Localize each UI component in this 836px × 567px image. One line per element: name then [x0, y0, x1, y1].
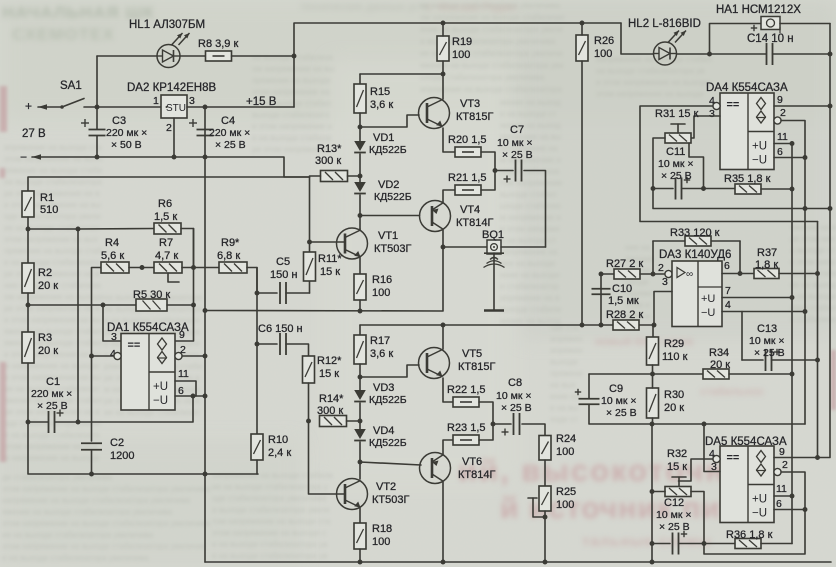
junction pin6 node: [191, 394, 196, 399]
comparator DA5 K554CA3A: [720, 446, 774, 523]
junction VT4 collector / BQ1 row: [441, 245, 446, 250]
junction VT5 collector node: [441, 323, 446, 328]
junction R29 on R34 row: [650, 372, 655, 377]
wire: DA4 pin6: [774, 157, 805, 159]
svg-text:VT2: VT2: [376, 481, 396, 493]
wire: bottom bus: [205, 561, 831, 563]
svg-text:× 25 В: × 25 В: [37, 400, 68, 412]
wire: DA1 pin11: [175, 381, 196, 396]
svg-text:напряжение на: напряжение на: [500, 248, 558, 257]
resistor R36: [735, 539, 761, 549]
svg-text:100: 100: [556, 446, 574, 458]
resistor R31 (trimmer): [665, 133, 691, 143]
svg-text:R2: R2: [38, 267, 52, 279]
svg-text:тальные схемы: тальные схемы: [582, 533, 712, 550]
wire: R14 right stub: [347, 420, 361, 422]
junction C1 tap: [26, 420, 31, 425]
capacitor C8 plates: [514, 413, 520, 435]
wire: R18 bottom to bus: [359, 549, 361, 562]
svg-text:1,5 мк: 1,5 мк: [608, 295, 639, 307]
junction output on x=817: [815, 271, 820, 276]
svg-text:C7: C7: [510, 124, 524, 136]
wire: C11 row left: [653, 188, 673, 190]
wire: VT6 base wire: [360, 462, 421, 465]
wire: x=651 vertical: [651, 424, 653, 562]
wire: y311 row: [205, 247, 443, 311]
junction pin6 DA5: [803, 507, 808, 512]
wire: C8 row: [493, 423, 511, 425]
wire: R33 row: [653, 240, 740, 242]
junction C5 row left: [255, 291, 260, 296]
wire: plus input rail y=107: [38, 106, 60, 108]
switch SA1 contact: [60, 105, 64, 109]
wire: BQ1 row right: [501, 246, 546, 248]
junction pin4 node: [89, 354, 94, 359]
wire: DA3 pin4: [722, 311, 805, 313]
svg-text:е на выходе стабилизатора увел: е на выходе стабилизатора увеличива: [2, 554, 149, 563]
resistor R15: [354, 84, 366, 113]
wire: HL1 to R8: [180, 55, 206, 57]
junction pin4 on x=805: [803, 309, 808, 314]
svg-text:м напряжение на выходе: м напряжение на выходе: [4, 454, 100, 463]
wire: DA5 pin9: [774, 209, 830, 458]
svg-text:R21 1,5: R21 1,5: [448, 172, 487, 184]
svg-text:КТ503Г: КТ503Г: [372, 494, 409, 506]
wire: x=193.5 vertical to DA1 pin9: [176, 229, 194, 342]
svg-text:этом напряжение на выходе стаб: этом напряжение на выходе стабилизатора …: [2, 519, 211, 528]
wire: bus corner to HL2: [621, 23, 653, 54]
wire: R33 feedback row: [652, 241, 654, 274]
wire: C12 row left: [652, 543, 670, 545]
junction R27 left node: [599, 272, 604, 277]
svg-text:е на выходе ст: е на выходе ст: [500, 110, 556, 119]
svg-text:этом напряжение на выходе: этом напряжение на выходе: [596, 90, 704, 99]
wire: DA3 pin7 supply: [722, 297, 792, 299]
wire: C6 right corner down to R12: [286, 344, 309, 356]
svg-text:КТ814Г: КТ814Г: [456, 217, 493, 229]
plus mark HA1: [751, 25, 757, 31]
trimmer arm R31 stem: [677, 124, 679, 133]
wire: R13 right stub: [348, 175, 361, 177]
svg-text:150 н: 150 н: [270, 269, 297, 281]
svg-text:+U: +U: [752, 141, 767, 153]
resistor R35: [735, 184, 761, 194]
wire: R5 row left: [28, 304, 136, 306]
svg-text:и этом напряжение на вы: и этом напряжение на вы: [4, 316, 101, 325]
wire: right edge riser x=830: [829, 24, 831, 209]
wire: C7 right corner down to BQ1 row: [524, 171, 546, 248]
svg-text:R7: R7: [159, 237, 173, 249]
svg-text:этом напряжение на вых: этом напряжение на вых: [4, 235, 98, 244]
svg-text:C12: C12: [664, 497, 684, 509]
wire: R9 right corner down to C5 row: [247, 268, 257, 294]
svg-text:е стабилизатор: е стабилизатор: [500, 282, 559, 291]
junction C3 top: [95, 105, 100, 110]
resistor R9*: [219, 262, 247, 273]
wire: R32 left: [652, 491, 665, 493]
svg-text:× 25 В: × 25 В: [606, 407, 637, 419]
capacitor C7 plates: [516, 160, 522, 182]
wire: R23 left + VT6 emitter drop: [443, 440, 453, 454]
svg-text:апряжение на выходе ста: апряжение на выходе ста: [4, 143, 102, 152]
transistor VT5 KT815G: [419, 348, 450, 379]
pin 2 circle DA3: [665, 270, 672, 277]
junction pin3/R29 node: [652, 323, 657, 328]
wire: C4 top: [204, 107, 206, 129]
svg-text:ние на: ние на: [625, 243, 650, 252]
wire: VD4 to VT2 collector: [359, 442, 361, 479]
svg-text:C13: C13: [757, 323, 777, 335]
resistor R12*: [303, 356, 315, 383]
svg-text:R8 3,9 к: R8 3,9 к: [198, 38, 238, 50]
resistor R4: [101, 262, 129, 273]
wire: DA1 pin6: [175, 395, 205, 397]
pin 4 circle DA4: [713, 102, 720, 109]
wire: R5 right to x=193.5: [167, 304, 194, 306]
trimmer arm R25 link: [533, 498, 545, 517]
svg-text:е на вы: е на вы: [550, 404, 579, 413]
capacitor C5 plates: [280, 282, 286, 304]
svg-text:апряжение на выходе стабилизат: апряжение на выходе стабилизатора: [420, 85, 562, 94]
wire: SA1 to DA2 pin1: [84, 106, 161, 108]
svg-text:С6 150 н: С6 150 н: [258, 323, 303, 335]
LED HL2: [654, 31, 687, 66]
junction minus rail crossing bus: [203, 472, 208, 477]
svg-text:6,8 к: 6,8 к: [217, 250, 240, 262]
junction R34 on supply riser: [790, 372, 795, 377]
svg-text:R6: R6: [158, 198, 172, 210]
svg-text:R11*: R11*: [318, 253, 342, 265]
junction DA2 pin2 on minus rail: [172, 155, 177, 160]
junction R31 wiper return: [701, 186, 706, 191]
switch SA1 lever: [62, 99, 84, 108]
svg-text:и этом напряжение н: и этом напряжение н: [252, 122, 332, 131]
junction R25 wiper: [543, 515, 548, 520]
wire: DA5 pin4 to R32 wiper: [679, 459, 714, 481]
wire: R1 to R2: [27, 217, 29, 263]
junction pin11 DA5 on supply riser: [790, 494, 795, 499]
junction VT6 collector on bus: [441, 560, 446, 565]
wire: R24 to R25: [544, 460, 546, 486]
trimmer arm R31: [671, 123, 685, 125]
svg-text:R17: R17: [370, 335, 390, 347]
wire: DA1 pin4 to integrator node: [92, 355, 115, 357]
svg-text:+: +: [25, 99, 32, 113]
junction R7/R6/R5/R9 node: [191, 265, 196, 270]
trimmer arm R32 stem: [678, 477, 680, 487]
wire: R21 left + VT4 emitter drop: [443, 190, 455, 202]
wire: R4 to R7: [129, 267, 154, 269]
wire: DA2 pin2 down: [173, 118, 175, 157]
junction R35 on supply riser: [790, 187, 795, 192]
wire: VT5 collector up: [442, 325, 444, 349]
junction C7 row left: [493, 168, 498, 173]
svg-text:е на выходе стабилизатора ув: е на выходе стабилизатора ув: [212, 540, 327, 549]
svg-text:10 мк ×: 10 мк ×: [601, 395, 636, 407]
wire: R13 left riser: [309, 177, 311, 293]
svg-text:C10: C10: [612, 283, 632, 295]
wire: C12 row right: [679, 543, 736, 545]
svg-text:на вых: на вых: [550, 381, 576, 390]
svg-text:20 к: 20 к: [664, 402, 684, 414]
svg-text:C11: C11: [666, 146, 685, 158]
junction y311 row on rail: [203, 308, 208, 313]
svg-text:ие на выходе стабилизат: ие на выходе стабилизат: [4, 224, 100, 233]
svg-text:300 к: 300 к: [315, 155, 341, 167]
svg-text:100: 100: [452, 49, 470, 61]
wire: R21 right corner up: [481, 171, 495, 191]
svg-text:е на выходе: е на выходе: [790, 292, 836, 301]
junction C8 row left: [491, 422, 496, 427]
svg-text:1,8 к: 1,8 к: [755, 259, 778, 271]
svg-text:КД522Б: КД522Б: [369, 437, 407, 449]
wire: C13 right: [772, 359, 818, 361]
svg-text:+15 В: +15 В: [246, 96, 277, 108]
svg-text:20 к: 20 к: [710, 359, 730, 371]
svg-text:C3: C3: [112, 115, 126, 127]
pin 4 circle DA5: [713, 455, 720, 462]
wire: R4 left corner: [92, 268, 102, 357]
junction VD2-VT1 node: [358, 213, 363, 218]
resistor R1: [22, 191, 34, 217]
svg-text:2: 2: [782, 459, 788, 471]
pin 2 circle DA4: [774, 117, 781, 124]
junction R1/R2 branch: [26, 227, 31, 232]
junction pin3 DA5 tap: [702, 422, 707, 427]
junction x651 on bus: [650, 560, 655, 565]
wire: x=817 vertical: [817, 222, 819, 458]
svg-text:КТ815Г: КТ815Г: [456, 111, 493, 123]
bleed-through headers: [2, 0, 517, 44]
wire: VT4 base wire: [360, 215, 420, 217]
svg-text:100: 100: [594, 48, 612, 60]
wire: R17 top corner: [359, 325, 361, 335]
svg-text:3,6 к: 3,6 к: [370, 99, 393, 111]
wire: R13 left stub: [310, 175, 321, 177]
svg-text:VT3: VT3: [460, 98, 480, 110]
svg-text:напряжение на выходе стабилиза: напряжение на выходе стабилизатора увели…: [2, 496, 191, 505]
resistor R25 (trimmer): [539, 486, 551, 511]
arrowhead minus input: [32, 154, 41, 160]
wire: VT3 base wire: [360, 115, 419, 127]
svg-text:R18: R18: [372, 523, 392, 535]
svg-text:2: 2: [658, 262, 664, 274]
svg-text:е на выходе стабилизатора ув: е на выходе стабилизатора ув: [212, 552, 327, 561]
svg-text:R34: R34: [709, 347, 729, 359]
junction C11 row left: [651, 186, 656, 191]
wire: DA4 pin2 down x=805: [781, 121, 805, 425]
wire: R33 right down: [739, 241, 741, 274]
wire: pin4 to C13: [741, 312, 743, 361]
wire: C11 row right: [682, 188, 737, 190]
svg-text:C14 10 н: C14 10 н: [747, 33, 794, 45]
junction HL1 row joins riser: [292, 54, 297, 59]
junction C4 bottom rail crossing: [203, 155, 208, 160]
junction R2/R3 branch: [26, 303, 31, 308]
svg-text:R13*: R13*: [317, 143, 342, 155]
svg-text:110 к: 110 к: [662, 351, 688, 363]
svg-text:VD2: VD2: [378, 179, 399, 191]
resistor R23: [453, 435, 479, 445]
svg-text:100: 100: [556, 499, 574, 511]
wire: C3 bottom: [96, 136, 98, 157]
svg-text:этом напряжение на выходе стаб: этом напряжение на выходе стабилизатора …: [2, 485, 211, 494]
svg-text:R22 1,5: R22 1,5: [447, 384, 486, 396]
diode VD1 KD522B: [354, 141, 366, 153]
wire: VT6 collector down to bus: [442, 482, 444, 562]
arrowhead plus input: [38, 104, 47, 110]
wire: C2 to bus: [91, 450, 93, 474]
svg-text:ом напряжение на выходе стабил: ом напряжение на выходе стабилизат: [420, 13, 565, 22]
svg-text:выходе стабил: выходе стабил: [500, 190, 557, 199]
wire: R19 top: [442, 23, 444, 36]
wire: VT3 emitter down to R20 row: [443, 128, 455, 152]
wire: R15 bottom: [359, 113, 361, 127]
plus mark C12: [681, 531, 687, 537]
resistor R16: [354, 274, 366, 300]
svg-text:27 В: 27 В: [22, 128, 46, 140]
svg-text:9: 9: [777, 94, 783, 106]
wire: integrator node down to C2: [91, 356, 93, 441]
svg-text:VT6: VT6: [462, 456, 482, 468]
plus mark C7: [504, 176, 511, 183]
svg-text:20 к: 20 к: [38, 345, 58, 357]
svg-text:ение на выходе стабилизатора у: ение на выходе стабилизатора увели: [420, 25, 563, 34]
resistor R11*: [304, 252, 316, 281]
wire: VD1-VD2 link: [359, 154, 361, 182]
wire: y74 row: [360, 73, 443, 75]
svg-text:СХЕМОТЕХ: СХЕМОТЕХ: [12, 25, 115, 44]
wire: C11 left down to row 208: [653, 189, 830, 209]
resistor R2: [22, 263, 34, 293]
svg-text:R5 30 к: R5 30 к: [133, 289, 170, 301]
transistor VT4 KT814G: [420, 201, 451, 232]
svg-text:R30: R30: [664, 389, 684, 401]
wire: minus input rail: [32, 157, 310, 177]
svg-text:е на выходе стабили: е на выходе стабили: [252, 134, 331, 143]
svg-text:11: 11: [777, 131, 788, 143]
junction R13 node: [358, 174, 363, 179]
svg-text:КТ503Г: КТ503Г: [374, 243, 411, 255]
junction R19 top on bus: [441, 21, 446, 26]
junction R27 right node: [651, 272, 656, 277]
svg-text:==: ==: [727, 99, 740, 111]
resistor R24: [539, 436, 551, 461]
junction pin6 on x=805: [803, 155, 808, 160]
svg-text:том напряжение на выходе ста: том напряжение на выходе ста: [212, 517, 331, 526]
svg-text:4: 4: [725, 299, 731, 311]
svg-text:выходе стабилизато: выходе стабилизато: [252, 111, 330, 120]
capacitor C11 plates: [676, 178, 682, 200]
wire: VD3-VD4 link: [359, 403, 361, 429]
wire: VT1 emitter to R16: [359, 258, 361, 275]
svg-text:DA1 К554САЗА: DA1 К554САЗА: [107, 322, 189, 334]
svg-text:VD4: VD4: [373, 425, 394, 437]
junction row208 right riser: [828, 206, 833, 211]
junction C12 left: [650, 541, 655, 546]
wire: R31 wiper return: [689, 143, 704, 189]
svg-text:R37: R37: [757, 247, 777, 259]
comparator DA4 K554CA3A: [720, 93, 774, 170]
junction x651 on row424: [650, 422, 655, 427]
wire: DA3 pin6 output: [722, 273, 755, 275]
junction C10 bottom node: [599, 323, 604, 328]
svg-text:HL1 АЛ307БМ: HL1 АЛ307БМ: [129, 19, 205, 31]
svg-text:R33 120 к: R33 120 к: [670, 227, 720, 239]
svg-text:апряжен: апряжен: [550, 346, 582, 355]
svg-text:R3: R3: [38, 332, 52, 344]
svg-text:ыходе стабилиз: ыходе стабилиз: [500, 202, 561, 211]
svg-text:10 мк ×: 10 мк ×: [656, 509, 691, 521]
wire: C9 vertical top: [588, 374, 590, 398]
svg-text:и этом напряже: и этом напряже: [500, 225, 560, 234]
capacitor C1 plates: [49, 411, 55, 433]
wire: x=97 up to HL1 row: [96, 56, 98, 107]
svg-text:й источник пит: й источник пит: [500, 492, 736, 525]
resistor R17: [354, 335, 366, 364]
svg-text:жение на выход: жение на выход: [500, 98, 561, 107]
junction x=78 bottom on C1 row: [76, 420, 81, 425]
svg-text:100: 100: [372, 287, 390, 299]
svg-text:VT4: VT4: [460, 204, 480, 216]
svg-text:оде стабилизатора увели: оде стабилизатора увели: [4, 419, 101, 428]
junction VT3 base node: [358, 125, 363, 130]
resistor R6: [154, 223, 181, 234]
wire: R15 top: [359, 74, 361, 84]
svg-text:R29: R29: [664, 338, 684, 350]
capacitor C2 plates: [81, 443, 102, 450]
resistor R22: [453, 397, 479, 407]
capacitor C9 plates: [579, 399, 600, 405]
svg-text:е стабилиза: е стабилиза: [790, 315, 836, 324]
wire: HA1 to right corner: [780, 23, 830, 25]
junction R19 bottom node: [441, 72, 446, 77]
svg-text:апряжение на в: апряжение на в: [500, 294, 560, 303]
svg-text:DA2 КР142ЕН8В: DA2 КР142ЕН8В: [127, 82, 216, 94]
wire: R7 to junction: [182, 267, 194, 269]
capacitor C13 plates: [766, 349, 772, 371]
plus mark C11: [684, 177, 690, 183]
svg-text:C1: C1: [46, 376, 60, 388]
svg-text:R26: R26: [594, 35, 614, 47]
junction C4 top: [203, 105, 208, 110]
left margin pink marks marker: [0, 86, 836, 462]
junction x817 on pin9 row: [815, 455, 820, 460]
svg-text:м напряжение на выходе: м напряжение на выходе: [4, 362, 100, 371]
svg-text:ие на выходе стабилизатора у: ие на выходе стабилизатора у: [212, 483, 329, 492]
wire: R22 right corner: [479, 402, 493, 424]
wire: R30 top: [652, 374, 654, 388]
svg-text:20 к: 20 к: [38, 280, 58, 292]
wire: R27 row: [601, 273, 614, 275]
wire: R16 bottom: [359, 300, 361, 311]
svg-text:R25: R25: [556, 486, 576, 498]
svg-text:C8: C8: [508, 377, 522, 389]
wire: C3 top: [96, 107, 98, 129]
svg-text:510: 510: [40, 204, 58, 216]
svg-text:10 мк ×: 10 мк ×: [749, 335, 784, 347]
capacitor C10 plates: [592, 289, 611, 295]
plus mark C8: [502, 429, 509, 436]
svg-text:10 мк ×: 10 мк ×: [496, 390, 531, 402]
wire: HA1 riser: [710, 24, 762, 55]
wire: C7 row: [495, 170, 513, 172]
wire: DA1 pin2 to minus vertical: [182, 355, 205, 357]
svg-text:VD3: VD3: [373, 382, 394, 394]
svg-text:напряжение на выходе стабили: напряжение на выходе стабили: [212, 471, 333, 480]
svg-text:и этом напряжение на выходе: и этом напряжение на выходе: [596, 78, 711, 87]
svg-text:× 25 В: × 25 В: [754, 347, 785, 359]
